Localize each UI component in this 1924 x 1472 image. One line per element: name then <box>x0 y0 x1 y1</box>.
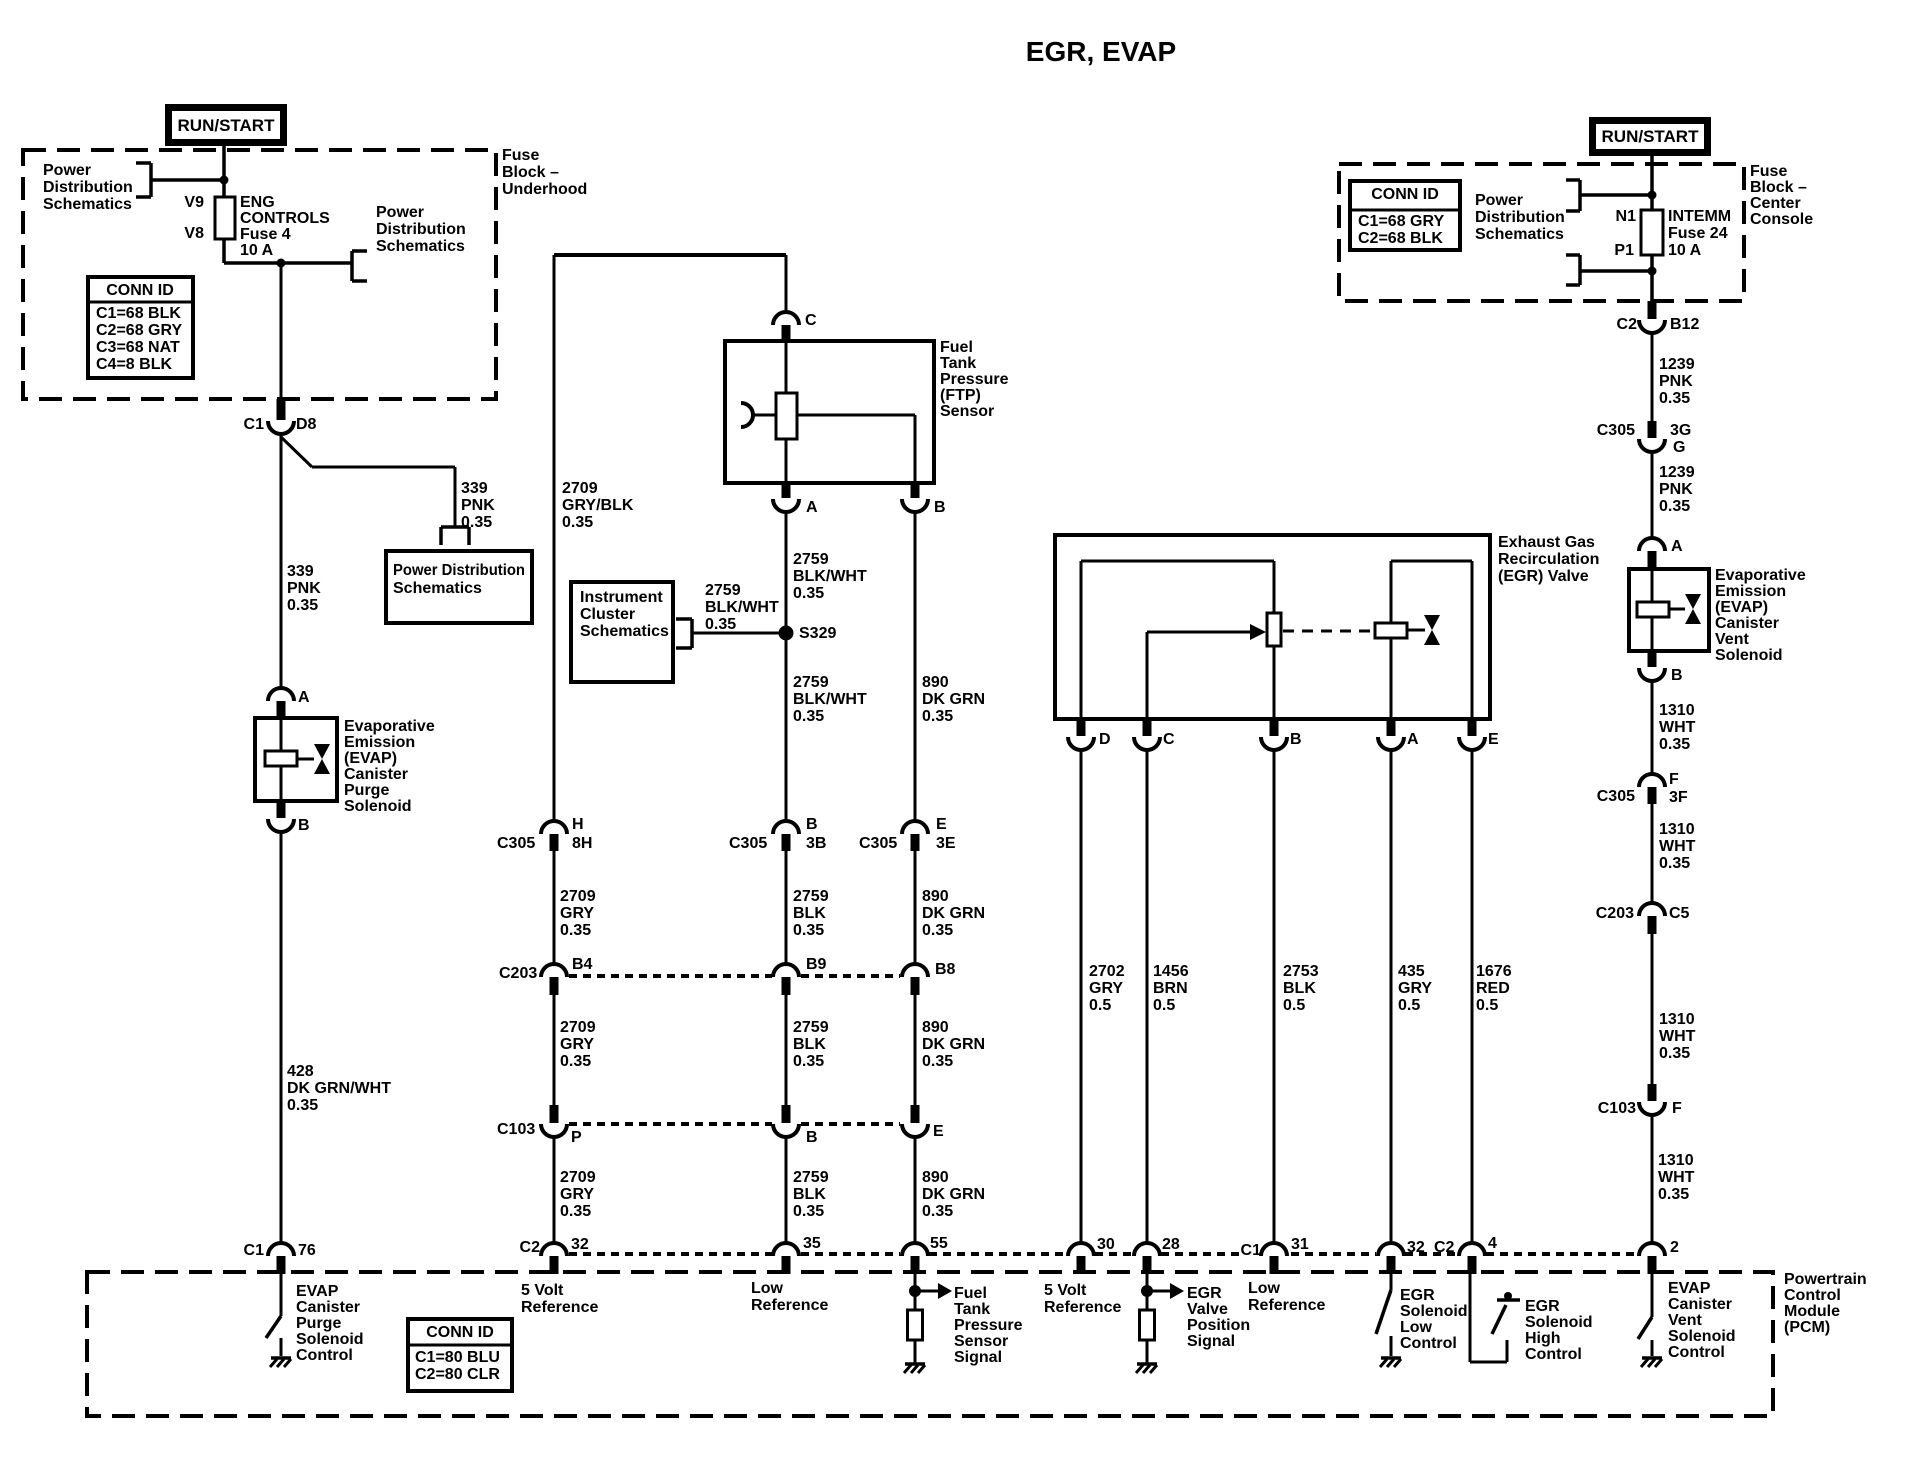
svg-text:P: P <box>571 1129 582 1146</box>
svg-text:Purge: Purge <box>344 782 389 799</box>
svg-text:2709: 2709 <box>560 888 596 905</box>
svg-text:Emission: Emission <box>344 734 415 751</box>
wire 2709 GRY 0.35 (b) <box>554 995 596 1105</box>
label EGR Solenoid Low Control <box>1400 1287 1468 1352</box>
svg-text:435: 435 <box>1398 963 1425 980</box>
connector E (EGR valve) <box>1459 719 1499 750</box>
svg-text:DK GRN/WHT: DK GRN/WHT <box>287 1080 391 1097</box>
svg-text:C305: C305 <box>859 835 897 852</box>
svg-text:Solenoid: Solenoid <box>1400 1303 1468 1320</box>
label EGR Valve Position Signal <box>1187 1285 1250 1350</box>
branch wire 339 PNK to power distribution <box>281 437 495 531</box>
svg-text:C203: C203 <box>1596 905 1634 922</box>
svg-text:Emission: Emission <box>1715 583 1786 600</box>
off-page ref Instrument Cluster Schematics <box>571 582 692 682</box>
svg-text:339: 339 <box>287 563 314 580</box>
svg-text:Distribution: Distribution <box>43 179 133 196</box>
connector C1 pin 31 (PCM) <box>1241 1236 1309 1274</box>
svg-text:2759: 2759 <box>793 674 829 691</box>
ground (vent driver) <box>1641 1358 1662 1367</box>
svg-text:3G: 3G <box>1670 422 1691 439</box>
svg-text:C: C <box>805 312 817 329</box>
label EVAP Canister Vent Solenoid Control <box>1668 1280 1736 1361</box>
svg-text:2709: 2709 <box>560 1169 596 1186</box>
svg-text:BLK/WHT: BLK/WHT <box>793 691 867 708</box>
svg-text:C305: C305 <box>729 835 767 852</box>
EVAP canister vent solenoid control driver <box>1638 1274 1652 1356</box>
svg-text:2709: 2709 <box>562 480 598 497</box>
svg-text:D8: D8 <box>296 416 317 433</box>
svg-text:0.35: 0.35 <box>793 922 824 939</box>
svg-text:H: H <box>572 816 584 833</box>
svg-text:BLK: BLK <box>793 905 826 922</box>
svg-text:Fuse 24: Fuse 24 <box>1668 225 1728 242</box>
connector C305 cavity B 3B <box>729 816 826 852</box>
svg-text:DK GRN: DK GRN <box>922 691 985 708</box>
svg-text:0.35: 0.35 <box>560 1053 591 1070</box>
svg-text:1310: 1310 <box>1659 1011 1695 1028</box>
svg-text:0.35: 0.35 <box>705 616 736 633</box>
svg-text:Canister: Canister <box>1715 615 1779 632</box>
svg-text:890: 890 <box>922 888 949 905</box>
connector A (EGR valve) <box>1378 719 1419 750</box>
connector C103 cavity F <box>1598 1084 1682 1117</box>
svg-text:EGR, EVAP: EGR, EVAP <box>1026 36 1176 67</box>
svg-text:PNK: PNK <box>1659 481 1693 498</box>
svg-text:0.35: 0.35 <box>922 1053 953 1070</box>
svg-text:0.5: 0.5 <box>1283 997 1305 1014</box>
svg-text:BRN: BRN <box>1153 980 1188 997</box>
title EGR, EVAP <box>1026 36 1176 67</box>
connector C1 pin 76 (PCM) <box>244 1242 316 1274</box>
svg-text:EGR: EGR <box>1525 1298 1560 1315</box>
svg-text:Sensor: Sensor <box>940 403 994 420</box>
svg-text:1239: 1239 <box>1659 464 1695 481</box>
wire 435 GRY 0.5 <box>1391 749 1432 1243</box>
svg-text:Pressure: Pressure <box>940 371 1009 388</box>
svg-text:INTEMM: INTEMM <box>1668 208 1731 225</box>
svg-text:C103: C103 <box>1598 1100 1636 1117</box>
svg-text:Reference: Reference <box>521 1299 598 1316</box>
connector pin 30 (PCM) <box>1068 1236 1115 1274</box>
svg-text:EGR: EGR <box>1400 1287 1435 1304</box>
fuse F24 INTEMM 10A <box>1614 208 1663 259</box>
svg-text:High: High <box>1525 1330 1561 1347</box>
svg-text:0.5: 0.5 <box>1398 997 1420 1014</box>
fuse block - center console (dashed box) <box>1339 164 1744 301</box>
svg-text:35: 35 <box>803 1235 821 1252</box>
svg-text:890: 890 <box>922 1169 949 1186</box>
label Exhaust Gas Recirculation (EGR) Valve <box>1498 534 1599 585</box>
svg-text:Distribution: Distribution <box>1475 209 1565 226</box>
wire 890 DK GRN 0.35 (a) <box>915 851 985 965</box>
svg-text:GRY/BLK: GRY/BLK <box>562 497 634 514</box>
fuse F4 ENG CONTROLS 10A <box>184 194 235 242</box>
svg-text:2709: 2709 <box>560 1019 596 1036</box>
svg-text:V8: V8 <box>184 225 204 242</box>
label EGR Solenoid High Control <box>1525 1298 1593 1363</box>
svg-text:WHT: WHT <box>1659 1028 1696 1045</box>
svg-text:3B: 3B <box>806 835 826 852</box>
svg-text:0.35: 0.35 <box>922 1203 953 1220</box>
svg-text:0.35: 0.35 <box>1659 1045 1690 1062</box>
wire 428 DK GRN/WHT 0.35 <box>281 831 391 1243</box>
svg-text:D: D <box>1099 731 1111 748</box>
off-page ref Power Distribution Schematics (console) <box>1475 180 1652 285</box>
svg-text:BLK/WHT: BLK/WHT <box>705 599 779 616</box>
connector C203 cavity B4 <box>499 956 593 995</box>
svg-text:V9: V9 <box>184 194 204 211</box>
svg-text:C1=68 BLK: C1=68 BLK <box>96 305 181 322</box>
EGR position sensor internals <box>1081 561 1281 719</box>
svg-text:Fuse 4: Fuse 4 <box>240 226 291 243</box>
svg-text:RUN/START: RUN/START <box>178 116 276 135</box>
svg-text:Control: Control <box>1668 1344 1725 1361</box>
svg-text:GRY: GRY <box>1398 980 1432 997</box>
Powertrain Control Module PCM (dashed box) <box>87 1272 1773 1416</box>
svg-text:(PCM): (PCM) <box>1784 1319 1830 1336</box>
svg-text:Underhood: Underhood <box>502 181 587 198</box>
svg-text:B: B <box>1671 667 1683 684</box>
label Evaporative Emission (EVAP) Canister Vent Solenoid <box>1715 567 1806 664</box>
svg-text:B: B <box>806 1129 818 1146</box>
svg-text:2: 2 <box>1670 1239 1679 1256</box>
wire 339 PNK 0.35 <box>281 432 321 690</box>
svg-text:Schematics: Schematics <box>393 580 482 597</box>
svg-text:4: 4 <box>1488 1235 1497 1252</box>
svg-text:10 A: 10 A <box>1668 242 1702 259</box>
svg-text:Power: Power <box>43 162 91 179</box>
svg-text:1310: 1310 <box>1659 702 1695 719</box>
svg-text:C5: C5 <box>1669 905 1690 922</box>
svg-text:Power: Power <box>1475 192 1523 209</box>
connector D (EGR valve) <box>1068 719 1111 750</box>
svg-text:0.5: 0.5 <box>1089 997 1111 1014</box>
wire 890 DK GRN 0.35 (b) <box>915 995 985 1105</box>
svg-text:CONTROLS: CONTROLS <box>240 210 330 227</box>
svg-text:Schematics: Schematics <box>376 238 465 255</box>
connector C103 cavity B <box>773 1105 818 1146</box>
connector B (FTP sensor) <box>902 483 946 516</box>
svg-text:G: G <box>1673 439 1685 456</box>
svg-text:Control: Control <box>1400 1335 1457 1352</box>
RUN/START feed (left) <box>165 104 287 146</box>
label Fuse Block - Center Console <box>1750 163 1813 228</box>
svg-text:C305: C305 <box>1597 422 1635 439</box>
svg-text:1239: 1239 <box>1659 356 1695 373</box>
svg-text:Power: Power <box>376 204 424 221</box>
svg-text:F: F <box>1669 771 1679 788</box>
svg-text:B: B <box>934 499 946 516</box>
node junction at fuse top <box>220 176 229 185</box>
connector C103 cavity P <box>497 1105 582 1146</box>
svg-text:1310: 1310 <box>1659 821 1695 838</box>
svg-text:CONN ID: CONN ID <box>106 282 174 299</box>
svg-text:2759: 2759 <box>705 582 741 599</box>
label Fuse Block - Underhood <box>502 147 587 198</box>
svg-text:PNK: PNK <box>461 497 495 514</box>
wire 1239 PNK 0.35 (a) <box>1652 332 1695 421</box>
svg-text:2759: 2759 <box>793 1169 829 1186</box>
svg-text:0.35: 0.35 <box>922 708 953 725</box>
wire 2759 BLK 0.35 (c) <box>786 1137 829 1243</box>
svg-text:Low: Low <box>1400 1319 1433 1336</box>
svg-text:339: 339 <box>461 480 488 497</box>
svg-text:C1=80 BLU: C1=80 BLU <box>415 1349 500 1366</box>
connector A (vent solenoid) <box>1639 538 1683 569</box>
wire from RUN/START to fuse N1 <box>1650 156 1654 210</box>
svg-text:Fuse: Fuse <box>502 147 539 164</box>
svg-text:0.35: 0.35 <box>1659 855 1690 872</box>
fuse block - underhood (dashed box) <box>23 150 496 399</box>
svg-text:0.35: 0.35 <box>560 1203 591 1220</box>
svg-text:(EVAP): (EVAP) <box>344 750 397 767</box>
EGR solenoid low control driver <box>1376 1274 1391 1356</box>
svg-text:Schematics: Schematics <box>1475 226 1564 243</box>
svg-text:5 Volt: 5 Volt <box>521 1282 564 1299</box>
ground (purge driver) <box>270 1358 291 1367</box>
svg-text:A: A <box>1407 731 1419 748</box>
svg-text:E: E <box>936 816 947 833</box>
svg-text:ENG: ENG <box>240 194 275 211</box>
svg-text:WHT: WHT <box>1658 1169 1695 1186</box>
wire 2759 BLK/WHT 0.35 below S329 <box>793 674 867 725</box>
svg-text:WHT: WHT <box>1659 719 1696 736</box>
svg-text:Schematics: Schematics <box>580 623 669 640</box>
svg-text:B12: B12 <box>1670 316 1699 333</box>
svg-text:C1: C1 <box>244 416 265 433</box>
svg-text:B4: B4 <box>572 956 593 973</box>
connector C203 cavity C5 <box>1596 903 1690 934</box>
wire 1676 RED 0.5 <box>1472 749 1512 1243</box>
svg-text:Console: Console <box>1750 211 1813 228</box>
splice S329 <box>779 625 837 642</box>
svg-text:Canister: Canister <box>1668 1296 1732 1313</box>
svg-text:0.35: 0.35 <box>793 708 824 725</box>
connector A (purge solenoid) <box>268 688 310 718</box>
svg-text:Module: Module <box>1784 1303 1840 1320</box>
label Powertrain Control Module (PCM) <box>1784 1271 1867 1336</box>
node junctions at fuse 24 <box>1648 191 1657 276</box>
svg-text:Block –: Block – <box>1750 179 1807 196</box>
svg-text:0.35: 0.35 <box>793 585 824 602</box>
svg-text:Solenoid: Solenoid <box>1715 647 1783 664</box>
wire from RUN/START to fuse V9 <box>222 146 226 198</box>
svg-text:Control: Control <box>1525 1346 1582 1363</box>
svg-text:EVAP: EVAP <box>1668 1280 1711 1297</box>
svg-text:0.35: 0.35 <box>1659 736 1690 753</box>
svg-text:Tank: Tank <box>940 355 976 372</box>
EGR valve position signal input <box>1140 1274 1185 1364</box>
svg-text:Block –: Block – <box>502 164 559 181</box>
svg-text:Reference: Reference <box>1044 1299 1121 1316</box>
svg-text:890: 890 <box>922 674 949 691</box>
label EVAP Canister Purge Solenoid Control <box>296 1283 364 1364</box>
svg-text:0.35: 0.35 <box>1659 390 1690 407</box>
svg-text:Power Distribution: Power Distribution <box>393 562 525 579</box>
wire 1239 PNK 0.35 (b) <box>1652 452 1695 539</box>
connector C305 cavity E 3E <box>859 816 956 852</box>
connector pin 2 (PCM) <box>1639 1239 1679 1274</box>
svg-text:EGR: EGR <box>1187 1285 1222 1302</box>
CONN ID table (center console) <box>1350 181 1460 250</box>
svg-text:C305: C305 <box>1597 788 1635 805</box>
svg-text:(EGR) Valve: (EGR) Valve <box>1498 568 1589 585</box>
svg-text:GRY: GRY <box>560 905 594 922</box>
EGR solenoid internals <box>1283 561 1472 719</box>
svg-text:Distribution: Distribution <box>376 221 466 238</box>
svg-text:Center: Center <box>1750 195 1801 212</box>
connector B (purge solenoid) <box>268 801 310 834</box>
wire 2753 BLK 0.5 <box>1274 749 1319 1243</box>
wire 1310 WHT 0.35 (a) <box>1652 681 1696 775</box>
svg-text:N1: N1 <box>1616 208 1637 225</box>
svg-text:B: B <box>1290 731 1302 748</box>
wire 2709 GRY 0.35 (c) <box>554 1137 596 1243</box>
wire 2759 BLK 0.35 (b) <box>786 995 829 1105</box>
svg-text:Solenoid: Solenoid <box>296 1331 364 1348</box>
svg-text:C2: C2 <box>1617 316 1638 333</box>
ground (EGR low control) <box>1380 1358 1401 1367</box>
connector C2 cavity B12 <box>1617 301 1700 333</box>
EVAP canister purge solenoid <box>255 718 337 801</box>
svg-text:BLK/WHT: BLK/WHT <box>793 568 867 585</box>
svg-text:32: 32 <box>571 1236 589 1253</box>
svg-text:BLK: BLK <box>793 1186 826 1203</box>
connector B (vent solenoid) <box>1639 651 1683 684</box>
svg-text:1676: 1676 <box>1476 963 1512 980</box>
svg-text:A: A <box>1671 538 1683 555</box>
svg-text:8H: 8H <box>572 835 592 852</box>
svg-text:C1=68 GRY: C1=68 GRY <box>1358 213 1444 230</box>
wire ref to fuse node <box>151 178 224 182</box>
connector C203 cavity B8 <box>902 961 956 995</box>
C203 in-line connector dashes <box>569 974 900 978</box>
svg-text:Recirculation: Recirculation <box>1498 551 1599 568</box>
svg-text:F: F <box>1672 1100 1682 1117</box>
svg-text:A: A <box>806 499 818 516</box>
svg-text:PNK: PNK <box>287 580 321 597</box>
svg-text:Fuel: Fuel <box>940 339 973 356</box>
svg-text:Pressure: Pressure <box>954 1317 1023 1334</box>
RUN/START feed (right) <box>1589 117 1711 156</box>
svg-text:Instrument: Instrument <box>580 589 663 606</box>
label 5 Volt Reference (EGR) <box>1044 1282 1121 1316</box>
svg-text:Cluster: Cluster <box>580 606 635 623</box>
svg-text:28: 28 <box>1162 1236 1180 1253</box>
svg-text:C2=68 GRY: C2=68 GRY <box>96 322 182 339</box>
wire 2709 GRY/BLK top run <box>554 255 786 822</box>
svg-text:Solenoid: Solenoid <box>344 798 412 815</box>
svg-text:RED: RED <box>1476 980 1510 997</box>
connector C2 pin 32 (PCM) <box>520 1236 589 1274</box>
svg-text:Position: Position <box>1187 1317 1250 1334</box>
Power Distribution Schematics box <box>386 551 532 623</box>
svg-text:1456: 1456 <box>1153 963 1189 980</box>
label ENG CONTROLS Fuse 4 10 A <box>240 194 330 259</box>
connector pin 55 (PCM) <box>902 1235 948 1274</box>
svg-text:Valve: Valve <box>1187 1301 1228 1318</box>
svg-text:0.35: 0.35 <box>560 922 591 939</box>
label Low Reference (EGR) <box>1248 1280 1325 1314</box>
svg-text:B: B <box>298 817 310 834</box>
connector C305 cavity H 8H <box>497 816 592 852</box>
svg-text:C2=80 CLR: C2=80 CLR <box>415 1366 500 1383</box>
wire fuse 24 output <box>1650 255 1654 302</box>
svg-text:Solenoid: Solenoid <box>1525 1314 1593 1331</box>
wire 890 DK GRN 0.35 (sensor B) <box>915 511 985 822</box>
svg-text:C2=68 BLK: C2=68 BLK <box>1358 230 1443 247</box>
wire 2759 BLK 0.35 (a) <box>786 851 829 965</box>
svg-text:Fuse: Fuse <box>1750 163 1787 180</box>
label Low Reference (FTP) <box>751 1280 828 1314</box>
svg-text:2759: 2759 <box>793 1019 829 1036</box>
connector C (FTP sensor) <box>773 255 817 341</box>
FTP sensor signal input <box>908 1274 953 1364</box>
wire 1310 WHT 0.35 (b) <box>1652 804 1696 904</box>
connector C1 cavity D8 <box>244 399 317 434</box>
svg-text:2753: 2753 <box>1283 963 1319 980</box>
EVAP canister purge solenoid control driver <box>266 1274 281 1356</box>
EGR wiper arrow <box>1147 624 1266 719</box>
connector pin 28 (PCM) <box>1134 1236 1180 1274</box>
svg-text:76: 76 <box>298 1242 316 1259</box>
connector C2 pin 32 (PCM, EGR) <box>1378 1239 1455 1274</box>
svg-text:DK GRN: DK GRN <box>922 905 985 922</box>
svg-text:DK GRN: DK GRN <box>922 1036 985 1053</box>
label Fuel Tank Pressure Sensor Signal <box>954 1285 1023 1366</box>
svg-text:C1: C1 <box>244 1242 265 1259</box>
connector C305 cavity 3G G <box>1597 421 1692 456</box>
svg-text:GRY: GRY <box>1089 980 1123 997</box>
svg-text:0.35: 0.35 <box>793 1053 824 1070</box>
svg-text:Vent: Vent <box>1715 631 1749 648</box>
label INTEMM Fuse 24 10 A <box>1668 208 1731 259</box>
svg-text:WHT: WHT <box>1659 838 1696 855</box>
svg-text:P1: P1 <box>1614 242 1634 259</box>
svg-text:0.35: 0.35 <box>793 1203 824 1220</box>
svg-text:0.35: 0.35 <box>1659 498 1690 515</box>
svg-text:B8: B8 <box>935 961 956 978</box>
svg-text:PNK: PNK <box>1659 373 1693 390</box>
svg-text:890: 890 <box>922 1019 949 1036</box>
svg-text:Purge: Purge <box>296 1315 341 1332</box>
connector C203 cavity B9 <box>773 956 827 995</box>
svg-text:Exhaust Gas: Exhaust Gas <box>1498 534 1595 551</box>
svg-text:Signal: Signal <box>1187 1333 1235 1350</box>
label Fuel Tank Pressure (FTP) Sensor <box>940 339 1009 420</box>
PCM connector in-line dashes <box>569 1252 1637 1256</box>
connector C103 cavity E <box>902 1105 944 1140</box>
svg-text:Fuel: Fuel <box>954 1285 987 1302</box>
svg-text:Evaporative: Evaporative <box>1715 567 1806 584</box>
ground (EGR position signal) <box>1136 1364 1157 1373</box>
connector C305 cavity F 3F <box>1597 771 1688 806</box>
svg-text:31: 31 <box>1291 1236 1309 1253</box>
svg-text:B9: B9 <box>806 956 827 973</box>
connector A (FTP sensor) <box>773 483 818 516</box>
svg-text:55: 55 <box>930 1235 948 1252</box>
svg-text:428: 428 <box>287 1063 314 1080</box>
svg-text:0.35: 0.35 <box>1658 1186 1689 1203</box>
svg-text:Signal: Signal <box>954 1349 1002 1366</box>
svg-text:0.35: 0.35 <box>922 922 953 939</box>
EVAP canister vent solenoid <box>1629 569 1709 651</box>
off-page ref Power Distribution Schematics (right of fuse) <box>352 204 466 281</box>
svg-text:C203: C203 <box>499 965 537 982</box>
wire 339 PNK inside fuse block <box>280 263 283 400</box>
svg-text:RUN/START: RUN/START <box>1602 127 1700 146</box>
